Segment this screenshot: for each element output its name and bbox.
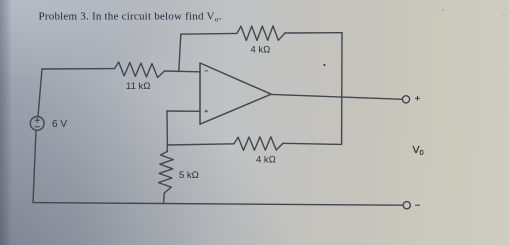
stray speck far right: [503, 14, 505, 16]
op-amp inverting mark (top, minus): [205, 71, 208, 113]
wire inverting input stub: [167, 110, 200, 112]
voltage source V1 6V circle: [30, 117, 44, 131]
wire node to R4 left: [167, 144, 234, 145]
svg-text:Problem 3. In the circuit belo: Problem 3. In the circuit below find Vo.: [39, 11, 222, 24]
plus mark at output terminal: [416, 96, 420, 205]
wire feedback vertical left: [179, 34, 181, 71]
wire R1 to op-amp noninverting input: [165, 70, 201, 73]
wire top rail left segment: [181, 32, 237, 35]
terminal ground minus circle: [403, 202, 410, 209]
svg-text:11 kΩ: 11 kΩ: [126, 81, 151, 92]
wire left vertical upper (source top to input rail corner): [38, 69, 42, 117]
op-amp noninverting mark (bottom, plus): [205, 110, 207, 112]
wire output to terminal: [271, 94, 402, 99]
svg-text:4 kΩ: 4 kΩ: [256, 155, 276, 166]
resistor R3 5 kOhm zigzag: [159, 152, 174, 194]
plus mark inside source: [35, 118, 39, 127]
wire R3 bottom to ground rail: [163, 193, 166, 203]
wire R4 right to right vertical: [283, 143, 342, 144]
resistor R2 4 kOhm feedback zigzag: [237, 26, 285, 41]
op-amp U1 triangle: [200, 63, 271, 124]
wire inverting vertical down: [166, 111, 168, 145]
stray pen dot near op-amp: [323, 64, 325, 66]
stray speck top right: [442, 9, 444, 11]
wire top rail right segment: [285, 32, 342, 34]
terminal output plus circle: [402, 96, 409, 103]
minus mark at lower terminal: [416, 204, 420, 206]
resistor R1 11 kOhm zigzag: [115, 62, 165, 78]
svg-text:6 V: 6 V: [52, 119, 67, 130]
resistor R4 4 kOhm bottom zigzag: [234, 137, 283, 151]
wire node to resistor R3 top stub: [166, 145, 168, 152]
minus mark inside source: [35, 126, 39, 128]
wire left vertical lower (source bottom to ground rail): [33, 130, 36, 202]
wire right vertical (feedback to output node and R4): [341, 33, 343, 145]
wire input top-left to resistor R1: [42, 68, 115, 70]
svg-text:5 kΩ: 5 kΩ: [179, 170, 199, 181]
svg-text:4 kΩ: 4 kΩ: [251, 45, 271, 56]
wire bottom rail: [33, 203, 403, 206]
svg-text:V0: V0: [413, 144, 424, 157]
